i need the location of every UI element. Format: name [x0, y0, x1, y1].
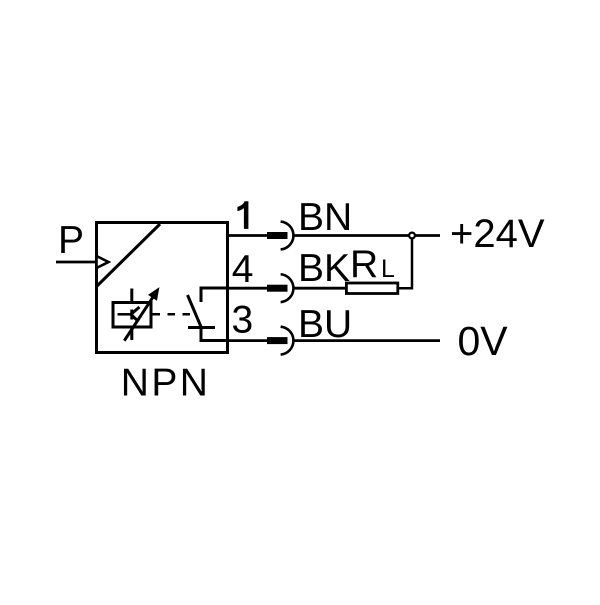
wire pin3 to plug [227, 339, 268, 342]
svg-text:L: L [381, 255, 395, 283]
adjustability arrowhead [149, 288, 159, 300]
resistor RL [346, 283, 397, 294]
socket arc 4 [281, 274, 294, 302]
P arrowhead [97, 256, 109, 268]
svg-text:NPN: NPN [121, 362, 211, 405]
socket arc 1 [281, 222, 294, 250]
svg-text:R: R [350, 243, 378, 286]
svg-text:0V: 0V [458, 318, 509, 364]
svg-text:BK: BK [298, 247, 350, 290]
plug pin 1 [267, 232, 288, 239]
pressure sensor element [113, 303, 151, 328]
sensor bottom stub [130, 328, 133, 340]
switch blade [188, 295, 202, 328]
plug pin 4 [267, 285, 288, 292]
junction node [409, 233, 415, 239]
adjustability arrow shaft [124, 296, 153, 340]
wire pin1 to plug [227, 234, 268, 237]
P input wire [56, 261, 96, 264]
socket arc 3 [281, 327, 294, 355]
sensor crossbar [130, 310, 133, 320]
plug pin 3 [267, 337, 288, 344]
svg-text:+24V: +24V [450, 212, 545, 256]
sensor arrow barb upper [131, 307, 140, 314]
sensor body box [97, 223, 228, 353]
svg-text:BN: BN [298, 196, 352, 239]
svg-text:4: 4 [232, 248, 254, 291]
switch top feed [201, 288, 228, 302]
svg-text:3: 3 [232, 299, 254, 342]
BK wire to resistor [295, 287, 347, 290]
resistor to node wire [398, 237, 412, 288]
pin 1 label [237, 201, 248, 229]
switch contact bar [188, 326, 215, 329]
sensor inner line [118, 313, 132, 316]
svg-text:P: P [58, 219, 84, 262]
sensor arrow barb lower [131, 314, 139, 321]
BU wire to 0V [295, 339, 441, 342]
wire pin4 to plug [227, 287, 268, 290]
switch bottom feed [201, 328, 228, 341]
BN wire to +24V [295, 234, 441, 237]
sensor top stub [130, 289, 133, 303]
dashed actuation line [153, 313, 192, 316]
diagonal divider [97, 224, 160, 286]
